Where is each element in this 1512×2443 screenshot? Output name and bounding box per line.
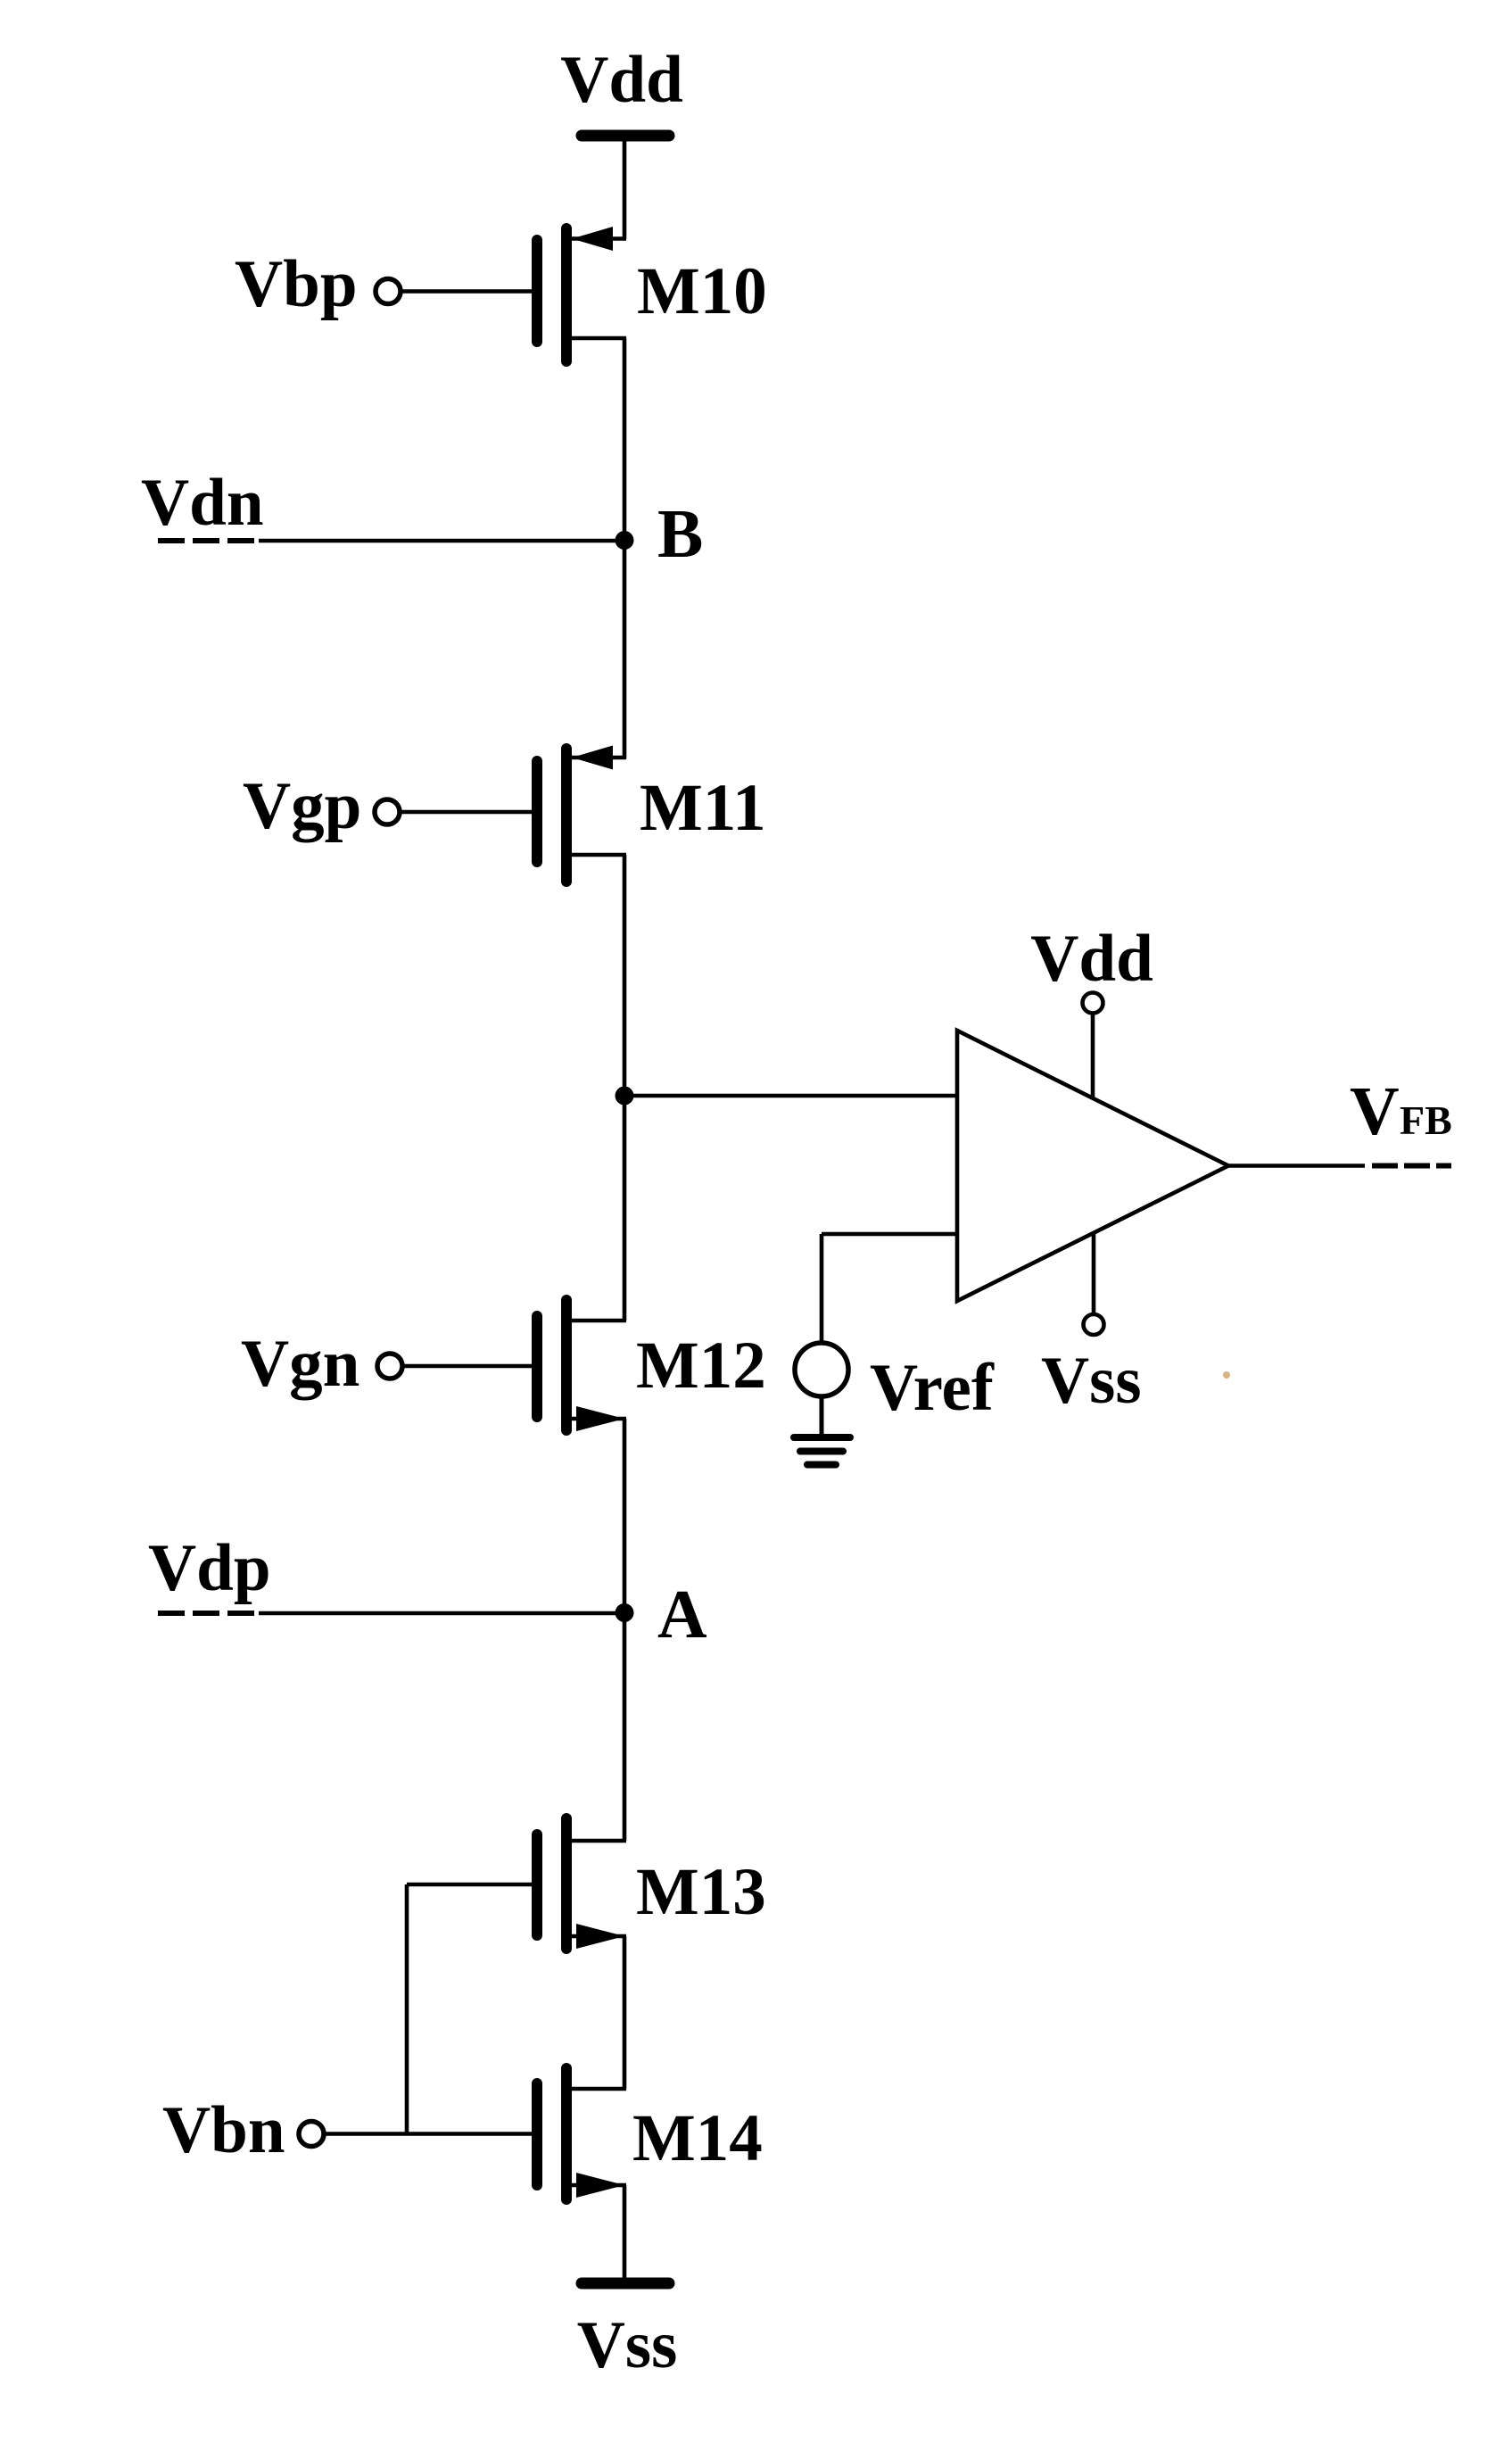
svg-text:M14: M14: [632, 2101, 763, 2175]
source Vref: [795, 1343, 848, 1396]
wire Vdd to M10 source: [623, 136, 627, 239]
wire M13 source to M14 drain: [623, 1936, 627, 2089]
wire M11 drain to mid node: [623, 855, 627, 1096]
stray dot artifact: [1223, 1371, 1230, 1379]
wire op-amp output: [1228, 1164, 1365, 1168]
wire Vref to ground: [820, 1396, 824, 1437]
svg-text:FB: FB: [1400, 1097, 1452, 1143]
svg-text:Vdn: Vdn: [141, 466, 264, 540]
svg-text:Vdd: Vdd: [1030, 922, 1153, 996]
svg-text:M11: M11: [640, 771, 766, 845]
wire Vbn gate: [325, 2132, 532, 2136]
svg-text:Vbp: Vbp: [235, 247, 358, 321]
wire node A to M13 drain: [623, 1613, 627, 1842]
transistor M14 (NMOS): [537, 2068, 626, 2199]
ground: [794, 1437, 850, 1465]
wire Vgn gate: [403, 1364, 532, 1369]
svg-text:Vgn: Vgn: [241, 1327, 359, 1401]
terminal Vgn circle: [377, 1354, 402, 1379]
power symbol Vss (bottom rail): [577, 2283, 678, 2382]
svg-text:Vss: Vss: [1041, 1344, 1142, 1418]
wire Vdn to node B: [259, 539, 624, 543]
op-amp U1: [957, 1031, 1228, 1301]
wire M10 drain to node B: [623, 338, 627, 541]
wire Vdp dashed: [158, 1611, 259, 1616]
svg-text:B: B: [657, 495, 703, 572]
svg-text:Vref: Vref: [870, 1351, 995, 1425]
wire node B to M11 source: [623, 541, 627, 759]
node B: [616, 531, 634, 550]
svg-text:Vss: Vss: [577, 2308, 678, 2382]
transistor M12 (NMOS): [537, 1300, 626, 1431]
transistor M11 (PMOS): [537, 746, 626, 882]
terminal Vss (op-amp supply): [1084, 1233, 1104, 1335]
svg-text:V: V: [1350, 1072, 1400, 1149]
wire Vbp gate: [401, 289, 532, 294]
power symbol Vdd (top rail): [560, 43, 683, 136]
svg-text:Vgp: Vgp: [243, 769, 361, 843]
terminal Vbn circle: [299, 2122, 324, 2147]
terminal Vbp circle: [376, 279, 401, 304]
svg-text:M13: M13: [636, 1855, 766, 1929]
svg-text:M12: M12: [636, 1329, 766, 1403]
svg-text:M10: M10: [637, 254, 767, 328]
node A: [616, 1603, 634, 1622]
wire mid node to op-amp input: [624, 1094, 957, 1098]
wire Vgp gate: [401, 810, 532, 815]
node mid: [616, 1087, 634, 1106]
wire Vdn dashed: [158, 538, 259, 543]
svg-text:Vbn: Vbn: [162, 2093, 285, 2167]
wire op-amp lower input: [822, 1234, 957, 1343]
wire Vdp to node A: [259, 1611, 624, 1616]
wire M14 source to Vss rail: [623, 2185, 627, 2281]
wire output dashed: [1372, 1164, 1451, 1169]
transistor M10 (PMOS): [537, 227, 626, 361]
wire M12 source to node A: [623, 1419, 627, 1613]
terminal Vgp circle: [375, 799, 400, 824]
wire M13 gate to Vbn net: [407, 1884, 532, 2134]
wire mid node to M12 drain: [623, 1096, 627, 1321]
transistor M13 (NMOS): [537, 1818, 626, 1949]
terminal Vdd (op-amp supply): [1083, 993, 1103, 1099]
label VFB: [1350, 1072, 1452, 1149]
svg-text:A: A: [657, 1576, 707, 1652]
svg-text:Vdp: Vdp: [148, 1531, 271, 1605]
svg-text:Vdd: Vdd: [560, 43, 683, 117]
